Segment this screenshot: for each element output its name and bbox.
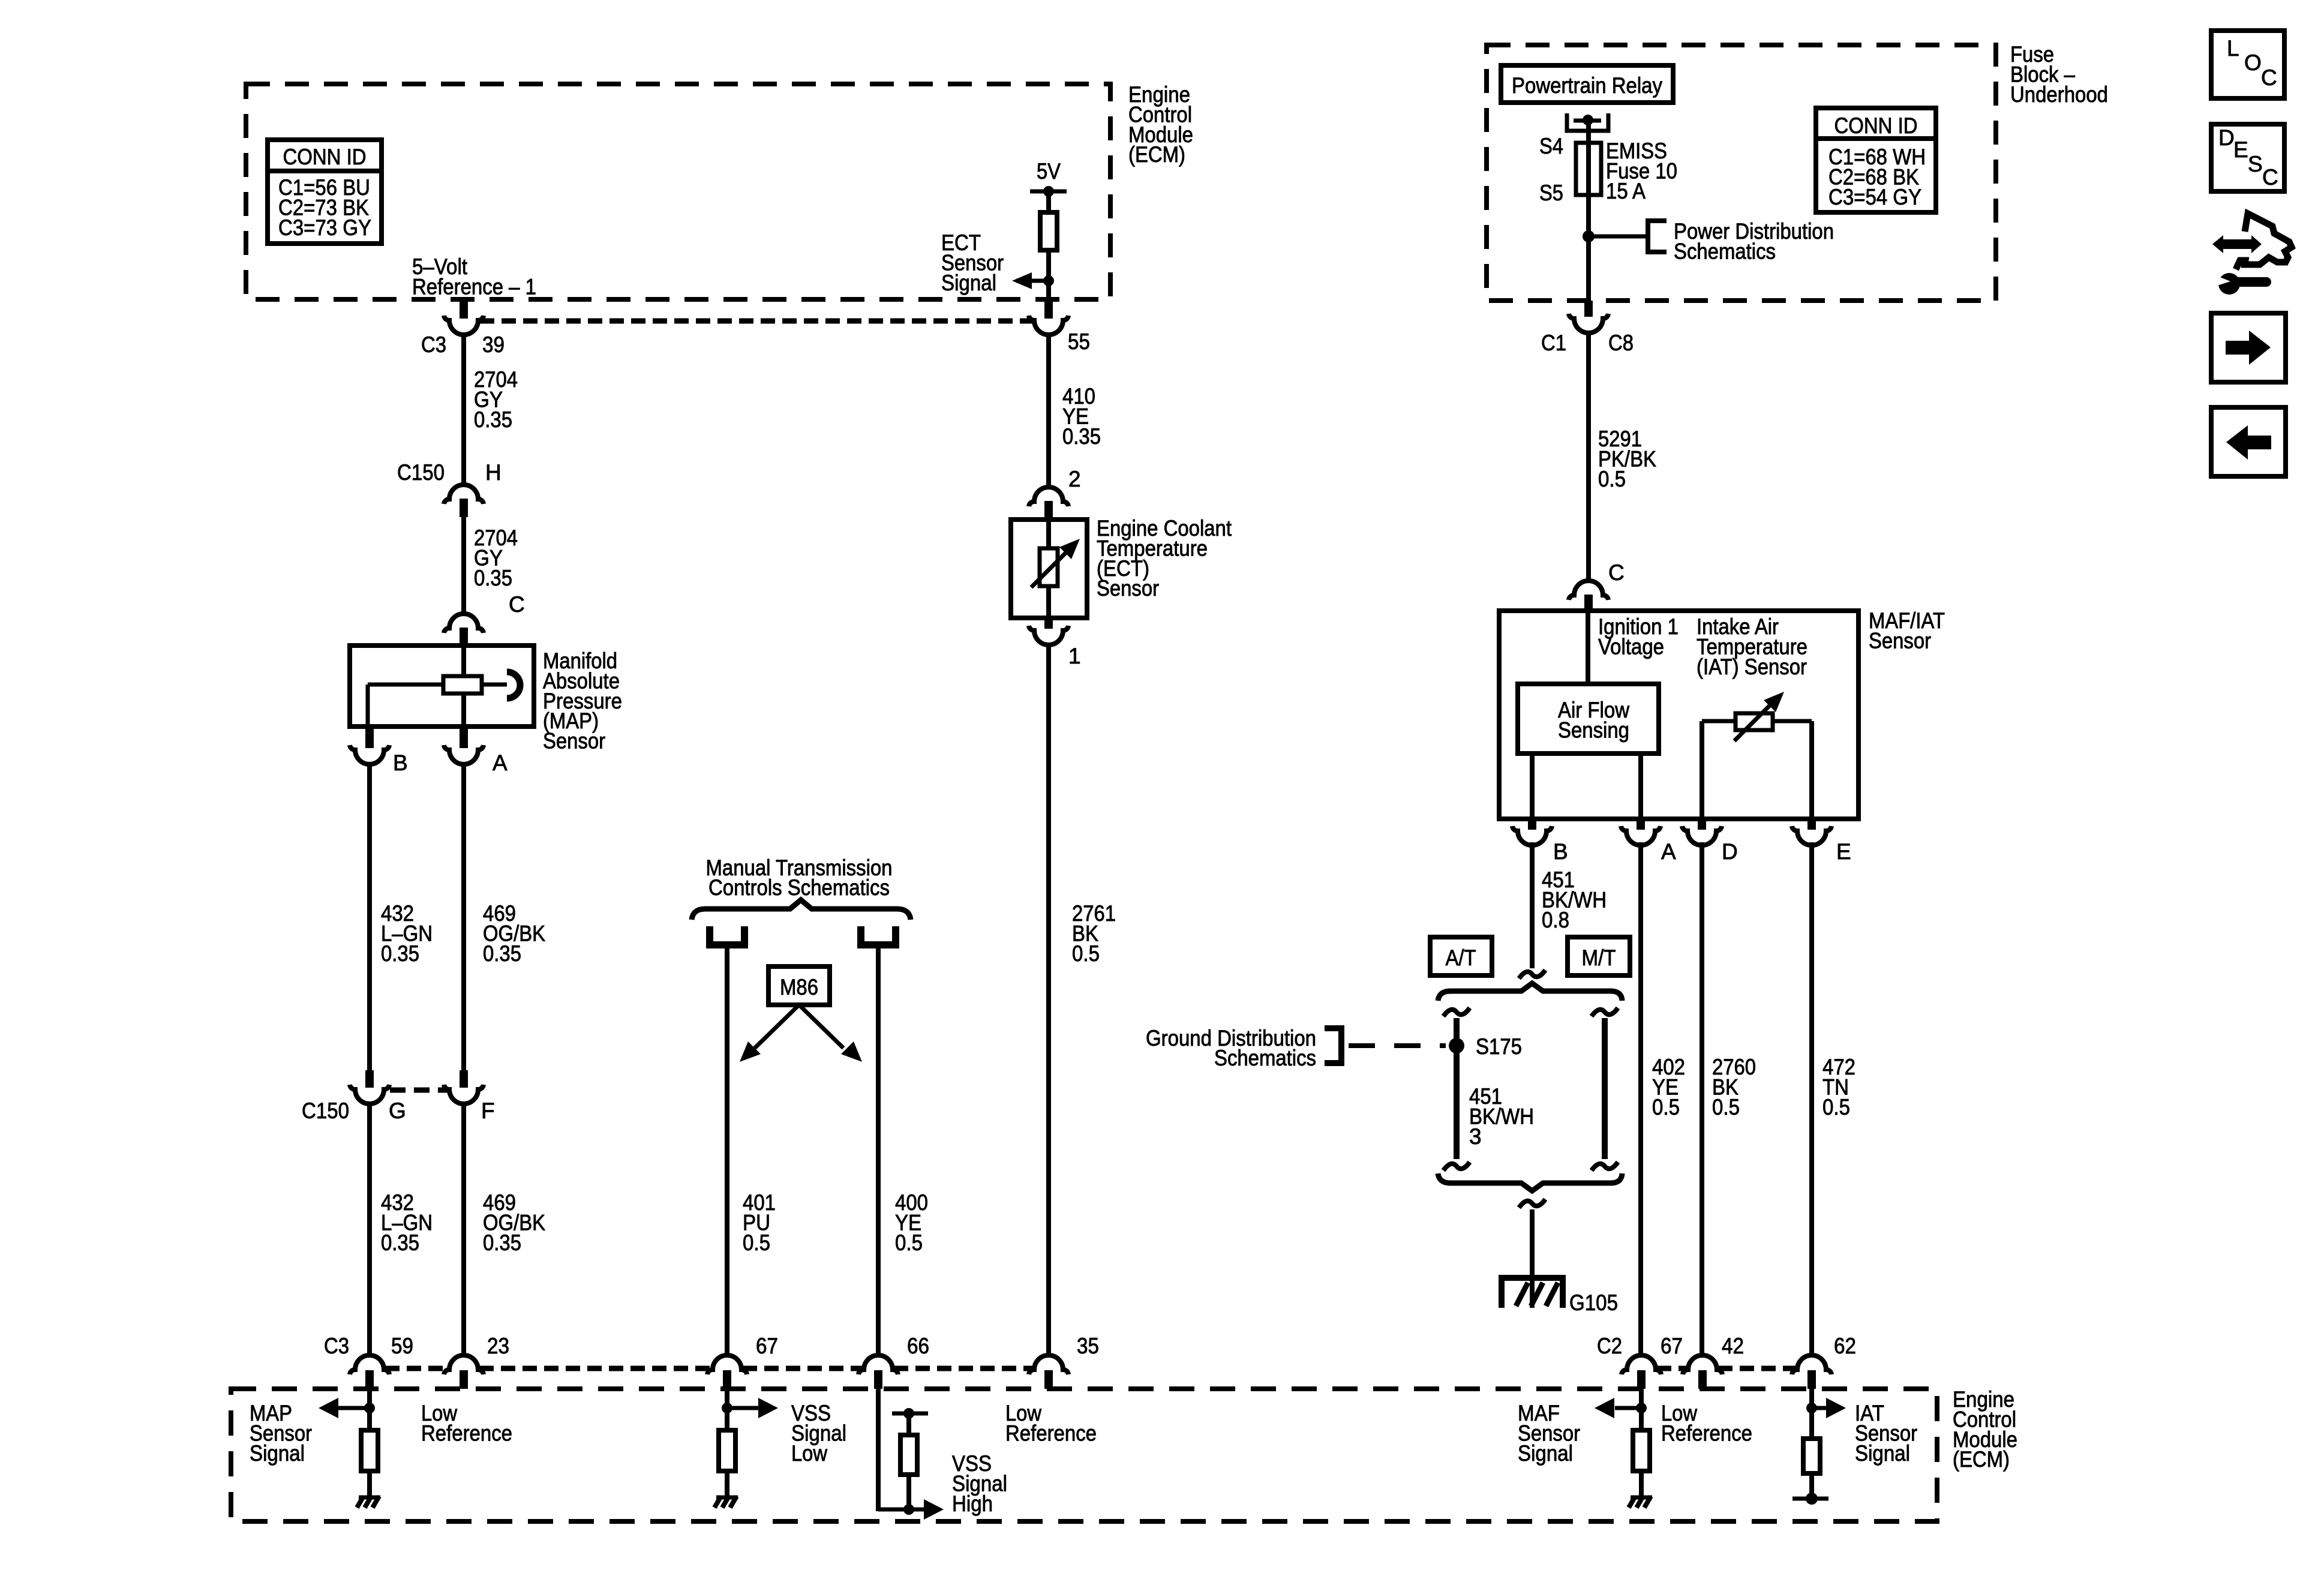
svg-text:5V: 5V (1037, 159, 1061, 184)
label wire 451 BK/WH 3 (1469, 1084, 1534, 1149)
label S5 (1539, 181, 1563, 205)
wire 59 into ECM (367, 1389, 372, 1430)
svg-text:1: 1 (1068, 644, 1081, 668)
svg-text:Reference: Reference (421, 1421, 512, 1445)
node IAT signal junction (1806, 1403, 1817, 1413)
label MAF/IAT Sensor (1869, 608, 1945, 653)
connector MAP pin B (350, 745, 389, 764)
power distribution tap (1589, 221, 1667, 252)
label wire 451 BK/WH 0.8 (1542, 867, 1607, 932)
svg-text:C: C (509, 592, 525, 617)
pin stub E (MAF) (1807, 819, 1816, 830)
svg-text:(ECM): (ECM) (1953, 1447, 2010, 1472)
wire 469 OG/BK upper (461, 764, 466, 1070)
svg-text:Powertrain Relay: Powertrain Relay (1512, 73, 1662, 98)
svg-text:E: E (2233, 137, 2248, 162)
svg-text:42: 42 (1722, 1334, 1744, 1358)
node ECT sensor signal junction (1043, 275, 1054, 286)
svg-text:Signal: Signal (1855, 1441, 1910, 1466)
label 2 (1068, 467, 1081, 491)
wire 401 PU (725, 947, 729, 1355)
svg-text:A: A (493, 751, 508, 775)
label EMISS Fuse 10 15 A (1606, 139, 1677, 203)
svg-text:Schematics: Schematics (1674, 239, 1776, 263)
label G105 (1569, 1290, 1618, 1315)
wire M/T branch (1602, 1018, 1608, 1159)
connector harness dotted line (bottom right) (1657, 1366, 1796, 1371)
connector C3 pin 39 (444, 316, 484, 335)
svg-text:C1: C1 (1541, 331, 1566, 355)
svg-text:Sensor: Sensor (543, 729, 605, 754)
resistor MAP input (361, 1430, 378, 1471)
svg-text:35: 35 (1077, 1334, 1099, 1358)
wire 2704 GY lower segment (461, 517, 466, 613)
A/T box (1430, 937, 1492, 975)
wire to ground (MAF) (1639, 1471, 1644, 1496)
svg-text:0.35: 0.35 (474, 407, 512, 432)
wire 400 YE (876, 947, 881, 1355)
pin stub A (MAF) (1637, 819, 1645, 830)
label Low Reference (C3-23) (421, 1401, 512, 1445)
ECT thermistor arrow (1031, 539, 1080, 587)
M/T box (1568, 937, 1630, 975)
svg-text:C3=54 GY: C3=54 GY (1828, 185, 1921, 209)
wire C2-67 into ECM (1639, 1389, 1644, 1430)
svg-text:Signal: Signal (941, 271, 996, 295)
label Manual Transmission Controls Schematics (706, 855, 893, 900)
svg-text:Signal: Signal (250, 1441, 305, 1466)
pin stub B (MAP) (365, 727, 374, 748)
svg-text:(IAT) Sensor: (IAT) Sensor (1697, 655, 1807, 679)
svg-text:Sensing: Sensing (1558, 718, 1629, 742)
label MAF Sensor Signal (1518, 1401, 1580, 1466)
node VSS high junction (903, 1504, 914, 1515)
label ECT Sensor Signal (941, 230, 1004, 295)
svg-text:15 A: 15 A (1606, 179, 1646, 203)
wire 5291 PK/BK (1586, 332, 1591, 581)
label Fuse Block - Underhood (2010, 42, 2108, 107)
label 35 (1077, 1334, 1099, 1358)
resistor VSS low input (719, 1430, 735, 1471)
label wire 2761 BK 0.5 (1072, 901, 1116, 966)
svg-text:S175: S175 (1476, 1034, 1522, 1059)
svg-text:M/T: M/T (1582, 945, 1616, 970)
label wire 469 OG/BK 0.35 (lower) (483, 1190, 545, 1255)
label Ignition 1 Voltage (1598, 614, 1679, 659)
brace split bottom (1438, 1173, 1622, 1191)
svg-text:Sensor: Sensor (1097, 576, 1159, 601)
connector MAF pin E (1792, 826, 1831, 845)
wire break squiggle (A/T branch bottom) (1443, 1162, 1470, 1170)
svg-text:CONN ID: CONN ID (1834, 113, 1918, 138)
wire resistor to termination (IAT) (1809, 1473, 1814, 1499)
connector MAP pin A (444, 745, 484, 764)
node MAF signal junction (1636, 1403, 1647, 1413)
wire 472 TN (1809, 842, 1814, 1355)
label Ground Distribution Schematics (1146, 1026, 1316, 1070)
connector C2 pin 67 (1622, 1355, 1661, 1389)
icon wrench (2215, 273, 2266, 295)
pin stub C1-C8 (1584, 301, 1593, 317)
MAP pressure port line (482, 683, 507, 687)
svg-text:O: O (2244, 50, 2262, 75)
svg-text:C150: C150 (302, 1098, 349, 1123)
pin stub B (MAF) (1528, 819, 1536, 830)
wire 62 into ECM (1809, 1389, 1814, 1439)
svg-text:0.5: 0.5 (895, 1230, 923, 1255)
ECM (top) dashed outline box (246, 84, 1110, 299)
wire 2760 BK (1700, 842, 1704, 1355)
brace split top (1438, 983, 1622, 1001)
label Power Distribution Schematics (1674, 219, 1834, 263)
label wire 402 YE 0.5 (1652, 1055, 1685, 1119)
node MAP signal junction (364, 1403, 375, 1413)
svg-text:0.35: 0.35 (474, 566, 512, 590)
wire break squiggle (451 top) (1519, 970, 1545, 978)
wire 66 into ECM (878, 1389, 908, 1511)
IAT thermistor arrow (1734, 692, 1784, 741)
wire IAT right leg (1773, 721, 1812, 819)
pin stub A (MAP) (460, 727, 468, 748)
IAT termination bar (1792, 1493, 1828, 1505)
label wire 432 L-GN 0.35 (lower) (381, 1190, 433, 1255)
ground distribution bracket (1325, 1028, 1341, 1063)
pin stub 55 (1044, 299, 1053, 319)
icon back arrow box (2211, 407, 2286, 476)
label 67 (C2) (1661, 1334, 1683, 1358)
label wire 410 YE 0.35 (1062, 384, 1101, 449)
svg-text:62: 62 (1834, 1334, 1856, 1358)
ground G105 (1499, 1278, 1566, 1308)
connector MAP pin C (444, 614, 484, 646)
svg-text:S: S (2248, 152, 2263, 176)
wire break squiggle (451 bottom) (1519, 1199, 1545, 1208)
relay contact bracket (1567, 113, 1608, 131)
resistor IAT thermistor (1736, 713, 1773, 730)
icon LOC box (2211, 31, 2284, 98)
connector pin 35 (1029, 1355, 1068, 1389)
wire resistor to ECM edge (1046, 250, 1051, 299)
connector pin 23 (444, 1355, 484, 1389)
Air Flow Sensing box (1518, 684, 1659, 754)
label VSS Signal Low (791, 1401, 846, 1466)
label 59 (391, 1334, 413, 1358)
label 42 (1722, 1334, 1744, 1358)
M86 box (768, 966, 830, 1005)
ground (MAP input) (357, 1496, 380, 1508)
label F (481, 1098, 495, 1123)
ground (MAF input) (1629, 1496, 1652, 1508)
node power distribution junction (1583, 230, 1595, 242)
svg-text:0.5: 0.5 (1652, 1095, 1680, 1119)
MAP sensor signal arrow (319, 1398, 370, 1418)
label wire 2760 BK 0.5 (1712, 1055, 1756, 1119)
ECT sensor box (1011, 520, 1087, 618)
label B (MAF) (1553, 839, 1568, 864)
label C2 (1597, 1334, 1622, 1358)
svg-text:67: 67 (756, 1334, 778, 1358)
resistor ECT thermistor (1040, 548, 1058, 586)
fuse EMISS Fuse 10 (1576, 143, 1601, 195)
connector C150 pin H (444, 485, 484, 517)
svg-text:G105: G105 (1569, 1290, 1618, 1315)
M86 arrow right (799, 1005, 862, 1062)
wire 402 YE (1638, 842, 1643, 1355)
svg-text:C8: C8 (1608, 331, 1634, 355)
wire 451 to ground (1530, 1209, 1535, 1308)
svg-text:Controls Schematics: Controls Schematics (708, 875, 890, 900)
wire break squiggle (M/T branch bottom) (1592, 1162, 1618, 1170)
label G (389, 1098, 406, 1123)
svg-text:0.35: 0.35 (483, 941, 521, 966)
icon part-locator double arrow (2212, 235, 2262, 253)
label wire 5291 PK/BK 0.5 (1598, 427, 1656, 491)
svg-text:3: 3 (1469, 1124, 1482, 1149)
wire IAT left leg (1702, 721, 1736, 819)
label Engine Coolant Temperature (ECT) Sensor (1097, 516, 1232, 601)
label D (MAF) (1722, 839, 1738, 864)
svg-text:A/T: A/T (1446, 945, 1476, 970)
connector MAF pin A (1621, 826, 1661, 845)
label 62 (1834, 1334, 1856, 1358)
svg-text:A: A (1661, 839, 1676, 864)
resistor ECT pull-up (1040, 212, 1057, 250)
label S175 (1476, 1034, 1522, 1059)
svg-text:B: B (1553, 839, 1568, 864)
label 66 (907, 1334, 929, 1358)
Fuse Block dashed outline box (1487, 45, 1996, 301)
connector MAF pin C (1569, 581, 1608, 611)
label 39 (482, 332, 505, 357)
CONN ID table (fuse block) (1816, 108, 1936, 212)
label Intake Air Temperature (IAT) Sensor (1697, 614, 1807, 679)
connector C150 dashed tie (390, 1088, 448, 1093)
Powertrain Relay box (1501, 65, 1673, 103)
svg-text:Signal: Signal (1518, 1441, 1573, 1466)
icon part-locator outline (2236, 214, 2292, 269)
svg-text:0.5: 0.5 (1598, 467, 1626, 491)
label Engine Control Module (ECM) (1128, 82, 1193, 167)
label C3 (421, 332, 446, 357)
wire to ground (VSS low) (725, 1471, 729, 1496)
svg-text:Underhood: Underhood (2010, 82, 2108, 107)
label 55 (1068, 329, 1090, 354)
pin stub G (365, 1070, 374, 1088)
MAF/IAT sensor box (1499, 611, 1858, 819)
connector ECT pin 2 (1029, 487, 1068, 520)
label Engine Control Module (ECM) bottom (1953, 1387, 2017, 1472)
svg-text:Voltage: Voltage (1598, 634, 1664, 659)
label IAT Sensor Signal (1855, 1401, 1917, 1466)
node splice S175 (1449, 1038, 1464, 1053)
wire tap to resistor (VSS high) (906, 1413, 911, 1435)
resistor MAF input (1633, 1430, 1650, 1471)
icon forward arrow box (2211, 313, 2286, 382)
label C1 (1541, 331, 1566, 355)
label C150 (397, 460, 445, 485)
wire 410 YE (1046, 334, 1051, 487)
label S4 (1539, 134, 1563, 158)
wire ignition feed inside MAF (1586, 611, 1590, 684)
wire to ground (MAP) (367, 1471, 372, 1496)
VSS signal high arrow (909, 1499, 944, 1520)
label Manifold Absolute Pressure (MAP) Sensor (543, 649, 622, 754)
svg-text:S5: S5 (1539, 181, 1563, 205)
label E (MAF) (1836, 839, 1851, 864)
label wire 2704 GY 0.35 (upper) (474, 367, 518, 432)
ground distribution dashed tie (1349, 1043, 1446, 1048)
svg-text:S4: S4 (1539, 134, 1563, 158)
svg-text:M86: M86 (780, 975, 818, 999)
label A (MAF) (1661, 839, 1676, 864)
label C3 (bottom) (324, 1334, 349, 1358)
svg-text:G: G (389, 1098, 406, 1123)
resistor IAT input (1803, 1439, 1820, 1473)
svg-text:E: E (1836, 839, 1851, 864)
wire A/T branch (1454, 1018, 1460, 1159)
svg-text:23: 23 (487, 1334, 509, 1358)
ECT internal wire (1046, 520, 1051, 618)
svg-text:Reference – 1: Reference – 1 (412, 274, 536, 299)
label 5-Volt Reference - 1 (412, 254, 536, 299)
svg-text:C3: C3 (324, 1334, 349, 1358)
label wire 432 L-GN 0.35 (upper) (381, 901, 433, 966)
svg-text:B: B (393, 751, 408, 775)
svg-text:D: D (2218, 125, 2235, 150)
connector C150 pin G (350, 1085, 389, 1104)
svg-text:2: 2 (1068, 467, 1081, 491)
wire 2761 BK (1046, 644, 1051, 1355)
label 5V (1037, 159, 1061, 184)
label MAP Sensor Signal (250, 1401, 312, 1466)
svg-text:C3: C3 (421, 332, 446, 357)
svg-text:D: D (1722, 839, 1738, 864)
svg-text:67: 67 (1661, 1334, 1683, 1358)
pin stub 39 (C3) (460, 299, 468, 319)
svg-text:0.35: 0.35 (381, 941, 419, 966)
svg-text:0.35: 0.35 (483, 1230, 521, 1255)
svg-text:0.5: 0.5 (1712, 1095, 1740, 1119)
svg-text:Low: Low (791, 1441, 827, 1466)
wire break squiggle (A/T branch top) (1443, 1008, 1470, 1016)
off-page connector (VSS high) (861, 926, 896, 945)
connector MAF pin B (1512, 826, 1552, 845)
wire AFS to pin B (1530, 754, 1535, 819)
svg-text:C: C (2262, 165, 2278, 190)
svg-text:High: High (952, 1491, 993, 1516)
svg-text:C3=73 GY: C3=73 GY (278, 215, 371, 240)
svg-text:59: 59 (391, 1334, 413, 1358)
MAP sensor internal wire (461, 646, 466, 727)
label 23 (487, 1334, 509, 1358)
label C (MAF pin) (1608, 560, 1625, 585)
connector pin 66 (858, 1355, 898, 1389)
label VSS Signal High (952, 1451, 1007, 1516)
wire AFS to pin A (1638, 754, 1643, 819)
IAT sensor signal arrow (1812, 1398, 1846, 1418)
svg-text:(ECM): (ECM) (1128, 142, 1185, 167)
brace manual transmission (692, 900, 911, 920)
wire 432 L-GN lower (367, 1103, 372, 1355)
label wire 400 YE 0.5 (895, 1190, 928, 1255)
CONN ID table (ECM) (268, 140, 382, 244)
label H (485, 460, 502, 485)
connector harness dotted line (bottom left) (385, 1366, 1033, 1371)
connector C150 pin F (444, 1085, 484, 1104)
wire 67 into ECM (725, 1389, 729, 1430)
M86 arrow left (740, 1005, 799, 1062)
wire 432 L-GN upper (367, 764, 372, 1070)
svg-text:66: 66 (907, 1334, 929, 1358)
svg-text:0.5: 0.5 (1072, 941, 1100, 966)
svg-text:0.35: 0.35 (1062, 424, 1101, 449)
wire 469 OG/BK lower (461, 1103, 466, 1355)
label 67 (756, 1334, 778, 1358)
MAP pressure port arc (507, 672, 520, 698)
VSS signal low arrow (727, 1398, 778, 1418)
label 1 (1068, 644, 1081, 668)
pin stub 1 (ECT) (1044, 618, 1053, 629)
svg-text:Sensor: Sensor (1869, 628, 1931, 653)
connector C3 pin 59 (350, 1355, 389, 1389)
connector pin 67 (707, 1355, 747, 1389)
ground (VSS low input) (714, 1496, 738, 1508)
label wire 2704 GY 0.35 (lower) (474, 526, 518, 590)
MAP sensor internal left branch (368, 685, 443, 727)
connector pin 42 (1683, 1355, 1722, 1389)
svg-text:C: C (1608, 560, 1625, 585)
pin stub F (460, 1070, 468, 1088)
svg-text:C2: C2 (1597, 1334, 1622, 1358)
ECM (bottom) dashed outline box (231, 1389, 1937, 1521)
MAP sensor box (350, 646, 534, 727)
5V supply bar with junction (1030, 186, 1067, 197)
label Low Reference (pin 42) (1661, 1401, 1752, 1445)
VSS high tap bar (892, 1408, 928, 1419)
svg-text:0.5: 0.5 (743, 1230, 770, 1255)
pin stub D (MAF) (1698, 819, 1706, 830)
svg-text:C: C (2261, 65, 2277, 90)
svg-text:55: 55 (1068, 329, 1090, 354)
connector ECT pin 1 (1029, 626, 1068, 645)
wire relay to fuse-block edge (1586, 121, 1591, 301)
svg-text:CONN ID: CONN ID (283, 145, 367, 169)
node VSS low junction (722, 1403, 732, 1413)
label wire 401 PU 0.5 (743, 1190, 776, 1255)
wire 5V to resistor (1046, 191, 1051, 212)
wire resistor to junction (VSS high) (906, 1475, 911, 1509)
label A (493, 751, 508, 775)
icon DESC box (2211, 124, 2284, 191)
svg-text:Reference: Reference (1005, 1421, 1097, 1445)
label C150 (lower) (302, 1098, 349, 1123)
label C (MAP pin) (509, 592, 525, 617)
label C8 (1608, 331, 1634, 355)
svg-text:L: L (2227, 36, 2239, 61)
connector MAF pin D (1682, 826, 1722, 845)
label wire 472 TN 0.5 (1822, 1055, 1855, 1119)
svg-text:H: H (485, 460, 502, 485)
wire 451 BK/WH upper (1530, 842, 1535, 968)
svg-text:Schematics: Schematics (1214, 1046, 1316, 1070)
off-page connector (VSS low) (710, 926, 744, 945)
MAF sensor signal arrow (1595, 1398, 1641, 1418)
svg-text:0.35: 0.35 (381, 1230, 419, 1255)
label wire 469 OG/BK 0.35 (upper) (483, 901, 545, 966)
connector harness dotted line (top) (480, 319, 1033, 324)
resistor MAP element (443, 676, 482, 694)
svg-text:Reference: Reference (1661, 1421, 1752, 1445)
